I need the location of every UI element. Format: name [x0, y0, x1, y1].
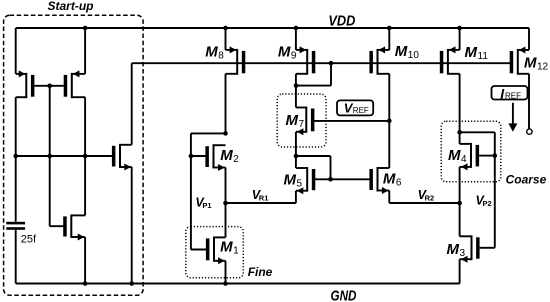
svg-text:P2: P2: [483, 199, 492, 208]
svg-text:4: 4: [461, 154, 467, 165]
svg-text:10: 10: [408, 50, 420, 61]
svg-text:M: M: [205, 44, 218, 61]
svg-text:8: 8: [218, 51, 224, 62]
svg-text:M: M: [383, 171, 396, 188]
svg-text:M: M: [524, 55, 537, 72]
svg-text:12: 12: [537, 62, 549, 73]
svg-text:Start-up: Start-up: [48, 0, 94, 13]
svg-text:M: M: [284, 171, 297, 188]
svg-text:M: M: [286, 112, 299, 129]
svg-text:Fine: Fine: [248, 265, 273, 279]
svg-text:REF: REF: [505, 92, 521, 101]
svg-text:R2: R2: [425, 194, 435, 203]
svg-text:R1: R1: [259, 194, 269, 203]
svg-text:1: 1: [233, 245, 239, 256]
svg-text:3: 3: [460, 248, 466, 259]
svg-text:REF: REF: [353, 106, 369, 115]
svg-text:M: M: [220, 238, 233, 255]
svg-text:M: M: [465, 44, 478, 61]
svg-text:M: M: [220, 147, 233, 164]
svg-text:M: M: [448, 147, 461, 164]
svg-text:M: M: [278, 44, 291, 61]
svg-text:P1: P1: [202, 201, 211, 210]
svg-text:9: 9: [291, 51, 297, 62]
svg-text:11: 11: [478, 51, 489, 62]
svg-text:5: 5: [297, 178, 303, 189]
svg-text:Coarse: Coarse: [506, 173, 547, 187]
svg-text:M: M: [395, 43, 408, 60]
svg-text:7: 7: [299, 119, 305, 130]
svg-text:M: M: [447, 241, 460, 258]
svg-text:VDD: VDD: [328, 13, 355, 30]
svg-text:25f: 25f: [21, 234, 37, 246]
svg-text:6: 6: [396, 178, 402, 189]
svg-text:GND: GND: [331, 287, 357, 302]
svg-text:2: 2: [233, 154, 239, 165]
